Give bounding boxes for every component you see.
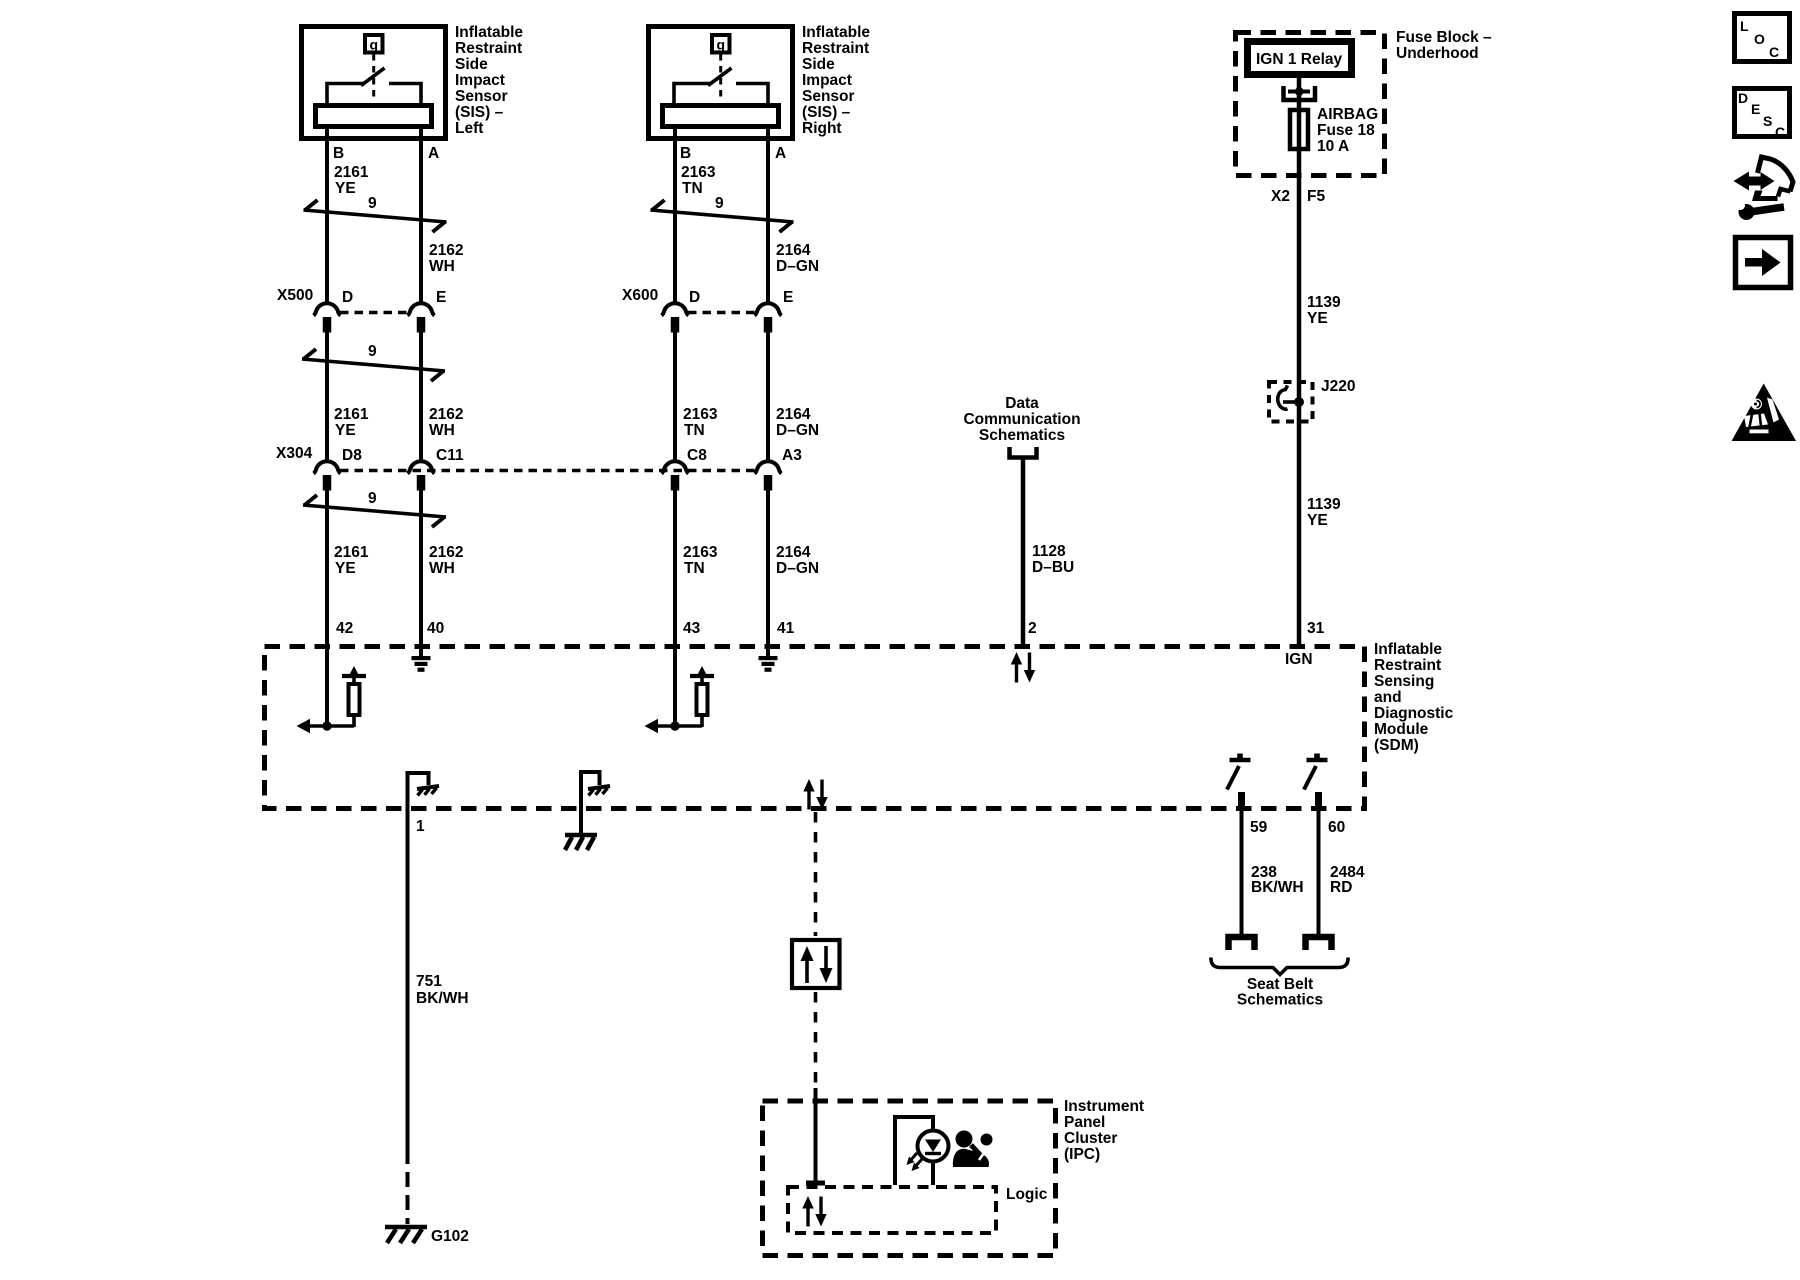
svg-text:Seat Belt: Seat Belt: [1247, 976, 1313, 993]
svg-text:59: 59: [1250, 819, 1268, 836]
svg-text:X2: X2: [1271, 188, 1290, 205]
svg-text:2162: 2162: [429, 242, 463, 259]
svg-text:Inflatable: Inflatable: [1374, 641, 1442, 658]
svg-text:42: 42: [336, 620, 353, 637]
svg-text:Inflatable: Inflatable: [802, 24, 870, 41]
svg-text:E: E: [436, 289, 446, 306]
svg-text:D: D: [689, 289, 700, 306]
svg-text:L: L: [1740, 18, 1749, 34]
svg-text:BK/WH: BK/WH: [1251, 879, 1304, 896]
svg-text:Fuse Block –: Fuse Block –: [1396, 29, 1492, 46]
svg-text:D–BU: D–BU: [1032, 559, 1074, 576]
svg-text:2163: 2163: [681, 164, 716, 181]
svg-text:BK/WH: BK/WH: [416, 990, 469, 1007]
svg-text:2161: 2161: [334, 406, 369, 423]
svg-text:Cluster: Cluster: [1064, 1130, 1117, 1147]
svg-text:RD: RD: [1330, 879, 1352, 896]
svg-text:B: B: [333, 145, 344, 162]
svg-text:Sensing: Sensing: [1374, 673, 1434, 690]
svg-text:10 A: 10 A: [1317, 138, 1349, 155]
svg-text:2161: 2161: [334, 544, 369, 561]
svg-text:YE: YE: [335, 180, 356, 197]
svg-text:Sensor: Sensor: [802, 88, 855, 105]
svg-text:9: 9: [715, 195, 724, 212]
svg-text:AIRBAG: AIRBAG: [1317, 106, 1378, 123]
svg-text:31: 31: [1307, 620, 1325, 637]
svg-text:(SDM): (SDM): [1374, 737, 1419, 754]
svg-text:TN: TN: [684, 560, 705, 577]
svg-text:D8: D8: [342, 447, 362, 464]
svg-text:IGN: IGN: [1285, 651, 1313, 668]
svg-text:Side: Side: [802, 56, 835, 73]
svg-text:A3: A3: [782, 447, 802, 464]
svg-text:D–GN: D–GN: [776, 560, 819, 577]
svg-text:Restraint: Restraint: [1374, 657, 1441, 674]
svg-text:Impact: Impact: [802, 72, 852, 89]
svg-text:WH: WH: [429, 560, 455, 577]
svg-text:Fuse 18: Fuse 18: [1317, 122, 1375, 139]
svg-text:Underhood: Underhood: [1396, 45, 1479, 62]
svg-text:TN: TN: [684, 422, 705, 439]
svg-text:YE: YE: [335, 422, 356, 439]
svg-text:E: E: [783, 289, 793, 306]
svg-text:2164: 2164: [776, 242, 811, 259]
svg-text:Impact: Impact: [455, 72, 505, 89]
svg-text:Schematics: Schematics: [979, 427, 1065, 444]
svg-text:Module: Module: [1374, 721, 1429, 738]
svg-text:g: g: [370, 37, 379, 53]
svg-text:Data: Data: [1005, 395, 1039, 412]
svg-text:(SIS) –: (SIS) –: [455, 104, 504, 121]
svg-text:1128: 1128: [1032, 543, 1066, 560]
svg-text:1139: 1139: [1307, 294, 1341, 311]
svg-text:B: B: [680, 145, 691, 162]
svg-text:Restraint: Restraint: [455, 40, 522, 57]
svg-text:WH: WH: [429, 258, 455, 275]
svg-text:1139: 1139: [1307, 496, 1341, 513]
svg-text:43: 43: [683, 620, 701, 637]
svg-text:YE: YE: [335, 560, 356, 577]
svg-text:D: D: [1738, 90, 1748, 106]
svg-text:IGN 1 Relay: IGN 1 Relay: [1256, 51, 1343, 68]
svg-text:WH: WH: [429, 422, 455, 439]
svg-text:TN: TN: [682, 180, 703, 197]
svg-text:S: S: [1763, 113, 1772, 129]
svg-text:2163: 2163: [683, 544, 718, 561]
svg-text:2162: 2162: [429, 544, 463, 561]
svg-text:J220: J220: [1321, 378, 1355, 395]
svg-text:X600: X600: [622, 287, 658, 304]
svg-text:X500: X500: [277, 287, 313, 304]
svg-text:Instrument: Instrument: [1064, 1098, 1144, 1115]
svg-text:Communication: Communication: [963, 411, 1080, 428]
svg-text:C11: C11: [436, 447, 464, 464]
svg-text:9: 9: [368, 490, 377, 507]
svg-text:Inflatable: Inflatable: [455, 24, 523, 41]
svg-text:41: 41: [777, 620, 795, 637]
svg-text:Restraint: Restraint: [802, 40, 869, 57]
svg-text:C: C: [1775, 124, 1785, 140]
svg-text:X304: X304: [276, 445, 313, 462]
svg-text:9: 9: [368, 343, 377, 360]
svg-text:Schematics: Schematics: [1237, 992, 1323, 1009]
svg-text:Diagnostic: Diagnostic: [1374, 705, 1454, 722]
svg-text:Side: Side: [455, 56, 488, 73]
svg-text:C: C: [1769, 44, 1779, 60]
svg-text:O: O: [1754, 31, 1765, 47]
svg-text:C8: C8: [687, 447, 707, 464]
svg-text:D–GN: D–GN: [776, 422, 819, 439]
svg-text:60: 60: [1328, 819, 1345, 836]
svg-text:2: 2: [1028, 620, 1037, 637]
svg-text:Sensor: Sensor: [455, 88, 508, 105]
svg-text:2161: 2161: [334, 164, 369, 181]
svg-text:E: E: [1751, 101, 1760, 117]
svg-text:D: D: [342, 289, 353, 306]
svg-text:A: A: [428, 145, 439, 162]
svg-text:751: 751: [416, 973, 442, 990]
svg-text:(SIS) –: (SIS) –: [802, 104, 851, 121]
svg-text:YE: YE: [1307, 310, 1328, 327]
svg-text:Left: Left: [455, 120, 483, 137]
svg-text:and: and: [1374, 689, 1402, 706]
svg-text:1: 1: [416, 818, 425, 835]
svg-text:A: A: [775, 145, 786, 162]
svg-text:D–GN: D–GN: [776, 258, 819, 275]
svg-text:Logic: Logic: [1006, 1186, 1048, 1203]
svg-text:g: g: [717, 37, 726, 53]
svg-text:40: 40: [427, 620, 444, 637]
svg-text:2163: 2163: [683, 406, 718, 423]
svg-text:Right: Right: [802, 120, 842, 137]
svg-text:F5: F5: [1307, 188, 1325, 205]
svg-text:9: 9: [368, 195, 377, 212]
svg-text:2164: 2164: [776, 406, 811, 423]
svg-text:YE: YE: [1307, 512, 1328, 529]
svg-text:2164: 2164: [776, 544, 811, 561]
svg-text:2162: 2162: [429, 406, 463, 423]
svg-text:G102: G102: [431, 1228, 469, 1245]
svg-text:(IPC): (IPC): [1064, 1146, 1100, 1163]
svg-text:Panel: Panel: [1064, 1114, 1105, 1131]
